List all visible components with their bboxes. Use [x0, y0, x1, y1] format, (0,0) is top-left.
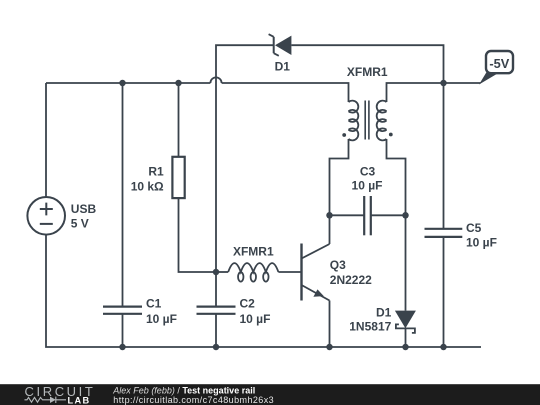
label D1 1N5817	[349, 305, 391, 333]
label USB 5 V	[71, 202, 97, 231]
wire secondary winding top to output node	[387, 83, 444, 102]
label R1 10 kOhm	[131, 165, 164, 194]
svg-text:10 µF: 10 µF	[146, 312, 177, 326]
svg-text:10 µF: 10 µF	[466, 236, 497, 250]
wire D1 anode lead	[405, 215, 407, 310]
junction dot C1 ground	[119, 344, 126, 351]
svg-text:10 µF: 10 µF	[352, 179, 383, 193]
transformer XFMR1	[349, 101, 387, 141]
wire collector node up to primary winding bottom	[330, 139, 349, 215]
wire inductor to Q3 base	[278, 271, 301, 273]
wire D1 cathode lead	[405, 328, 407, 347]
svg-text:R1: R1	[148, 165, 164, 179]
junction dot C5 ground	[440, 344, 447, 351]
capacitor C5	[425, 229, 463, 237]
wire Q3 emitter lead down	[329, 301, 331, 348]
svg-text:USB: USB	[71, 202, 97, 216]
capacitor C2	[197, 307, 236, 314]
svg-text:C5: C5	[466, 221, 482, 235]
wire R1 top lead	[178, 83, 180, 156]
wire +5V rail right of hop to transformer primary top	[222, 83, 349, 102]
capacitor C3	[364, 196, 371, 235]
core lines	[365, 101, 369, 140]
svg-text:XFMR1: XFMR1	[233, 245, 274, 259]
svg-text:C1: C1	[146, 297, 162, 311]
junction dot base node	[213, 269, 220, 276]
wire top-right from zener to output corner	[292, 45, 444, 83]
label C2 10 uF	[240, 297, 271, 326]
junction dot C2 ground	[213, 344, 220, 351]
inductor XFMR1 feedback winding	[228, 263, 278, 281]
svg-text:10 kΩ: 10 kΩ	[131, 180, 164, 194]
svg-text:Alex Feb (febb) / Test negativ: Alex Feb (febb) / Test negative rail	[112, 385, 255, 395]
svg-text:-5V: -5V	[489, 56, 509, 71]
svg-text:XFMR1: XFMR1	[347, 65, 388, 79]
wire USB plus lead	[45, 83, 47, 197]
wire output to -5V flag	[444, 82, 481, 84]
voltage source USB	[27, 197, 65, 235]
svg-text:LAB: LAB	[68, 395, 91, 405]
Q3 emitter arrow	[313, 289, 323, 296]
label C1 10 uF	[146, 297, 177, 326]
junction dot collector node	[326, 212, 333, 219]
junction dot C1 top	[119, 80, 126, 87]
footer bar	[0, 384, 540, 405]
svg-text:1N5817: 1N5817	[349, 319, 391, 333]
wire R1 bottom lead to base node	[179, 198, 217, 272]
svg-text:5 V: 5 V	[71, 217, 89, 231]
net flag -5V	[479, 51, 513, 85]
schottky diode D1	[395, 311, 416, 333]
wire secondary node up to secondary winding bottom	[387, 139, 406, 215]
wire C1 top lead	[122, 83, 124, 307]
svg-text:http://circuitlab.com/c7c48ubm: http://circuitlab.com/c7c48ubmh26x3	[113, 395, 274, 405]
wire C3 right plate to secondary node	[371, 214, 406, 216]
svg-text:Q3: Q3	[330, 258, 346, 272]
transistor Q3	[302, 244, 330, 301]
wire C5 bottom lead	[443, 237, 445, 347]
primary winding	[349, 101, 359, 141]
wire +5V rail left of hop	[46, 82, 210, 84]
svg-text:C2: C2	[240, 297, 256, 311]
phase dot primary	[342, 133, 346, 137]
label Q3 2N2222	[330, 258, 372, 287]
logo doodle resistor-diode	[25, 397, 67, 403]
svg-text:C3: C3	[360, 165, 376, 179]
wire Q3 collector lead up	[329, 215, 331, 244]
junction dot R1 top	[175, 80, 182, 87]
wire base node to inductor	[216, 271, 228, 273]
svg-text:2N2222: 2N2222	[330, 273, 372, 287]
wire C2 top lead	[215, 272, 217, 307]
secondary winding	[377, 101, 387, 141]
svg-text:D1: D1	[275, 60, 291, 74]
phase dot secondary	[389, 133, 393, 137]
junction dot emitter ground	[326, 344, 333, 351]
label C3 10 uF	[352, 165, 383, 193]
wire C2 bottom lead	[215, 314, 217, 347]
wire C5 top lead	[443, 83, 445, 229]
label C5 10 uF	[466, 221, 497, 250]
junction dot output node	[440, 80, 447, 87]
resistor R1	[172, 157, 184, 198]
wire USB minus lead and ground rail	[46, 235, 481, 347]
wire hop over vertical at x=216	[210, 77, 221, 83]
wire C1 bottom lead	[122, 314, 124, 347]
zener diode D1	[269, 34, 292, 56]
capacitor C1	[103, 307, 142, 314]
svg-text:10 µF: 10 µF	[240, 312, 271, 326]
svg-text:D1: D1	[376, 305, 392, 319]
junction dot secondary node	[402, 212, 409, 219]
wire top-left from zener to vertical feed down to base node	[216, 45, 274, 272]
wire collector node to C3 left plate	[330, 214, 365, 216]
junction dot D1 ground	[402, 344, 409, 351]
